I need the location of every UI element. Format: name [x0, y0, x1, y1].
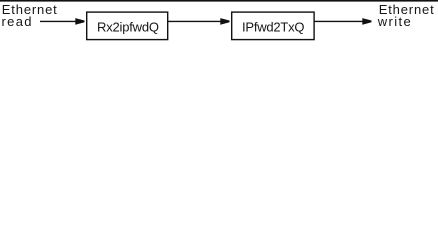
svg-text:write: write	[377, 14, 411, 29]
svg-text:IPfwd2TxQ: IPfwd2TxQ	[242, 19, 305, 34]
box Rx2ipfwdQ	[87, 12, 168, 39]
wire arrow read to Rx2ipfwdQ	[40, 20, 77, 22]
wire arrow IPfwd2TxQ to Ethernet write	[315, 20, 364, 22]
wire arrow Rx2ipfwdQ to IPfwd2TxQ	[168, 20, 222, 22]
top rule	[0, 0, 438, 2]
box IPfwd2TxQ	[232, 12, 314, 39]
svg-text:Rx2ipfwdQ: Rx2ipfwdQ	[97, 19, 159, 34]
